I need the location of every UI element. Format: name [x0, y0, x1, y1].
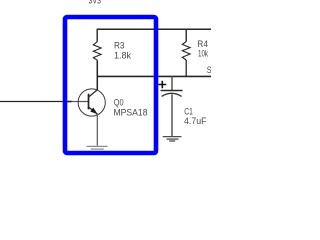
svg-text:3V3: 3V3 [89, 0, 102, 6]
wire R4 top lead [185, 29, 187, 41]
svg-text:MPSA18: MPSA18 [114, 108, 148, 119]
transistor Q0 [78, 89, 105, 116]
svg-text:4.7uF: 4.7uF [184, 116, 207, 127]
wire base stub at box edge [67, 101, 72, 103]
circle body [78, 89, 105, 116]
wire top rail 3V3 [97, 28, 211, 30]
capacitor C1 (polarized) [158, 81, 182, 97]
ground (C1) [163, 137, 182, 141]
selection rectangle (blue) [65, 17, 156, 153]
top plate [161, 90, 183, 92]
emitter diagonal [89, 107, 98, 114]
wire R3 bottom to collector bend [96, 60, 98, 90]
bottom plate arc [162, 93, 182, 96]
wire C1 bottom lead [171, 94, 173, 136]
plus sign [158, 81, 166, 89]
collector diagonal [89, 90, 97, 97]
ground (emitter, gray) [87, 146, 108, 151]
svg-text:S: S [207, 65, 211, 76]
wire R3 top lead [96, 29, 98, 42]
resistor R4 [182, 42, 190, 61]
svg-text:10k: 10k [198, 49, 208, 60]
svg-text:1.8k: 1.8k [114, 51, 131, 62]
wire base net (left) [0, 101, 63, 103]
wire emitter to ground [96, 114, 98, 145]
wire base pin into transistor [72, 101, 89, 103]
base bar [88, 94, 90, 110]
emitter arrow [90, 108, 97, 115]
resistor R3 [93, 42, 101, 60]
wire C1 top lead [171, 76, 173, 90]
wire collector junction rail [97, 75, 211, 77]
wire R4 bottom lead [185, 60, 187, 76]
